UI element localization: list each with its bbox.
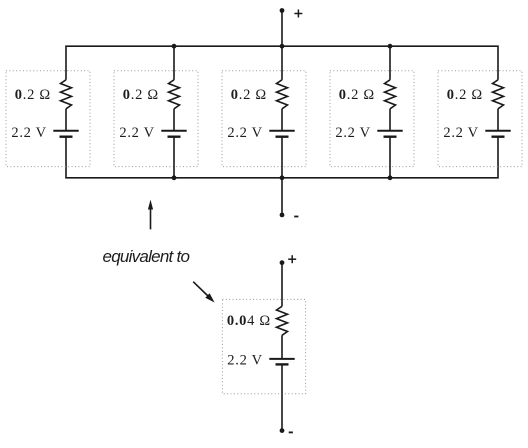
arrow up (from equivalent to) bbox=[148, 200, 153, 230]
wire bbox=[281, 46, 283, 80]
resistor 0.2 ohm (cell 4) bbox=[385, 80, 396, 109]
wire bbox=[389, 137, 391, 178]
resistor 0.2 ohm (cell 5) bbox=[493, 80, 504, 109]
battery cell box 1 bbox=[6, 71, 90, 167]
wire bbox=[281, 364, 283, 430]
battery 2.2 V (cell 1) bbox=[53, 131, 78, 137]
svg-text:equivalent to: equivalent to bbox=[103, 247, 190, 266]
svg-text:0.2 Ω: 0.2 Ω bbox=[231, 87, 267, 103]
wire bbox=[173, 46, 175, 80]
resistor 0.2 ohm (cell 1) bbox=[61, 80, 72, 109]
node + (equivalent top dot) bbox=[280, 260, 285, 265]
junction (bottom, cell 2) bbox=[172, 175, 177, 180]
svg-text:2.2 V: 2.2 V bbox=[227, 352, 262, 368]
battery cell box 5 bbox=[438, 71, 522, 167]
svg-text:0.2 Ω: 0.2 Ω bbox=[15, 87, 51, 103]
junction (top, cell 3) bbox=[280, 44, 285, 49]
node - terminal wire (bottom) bbox=[281, 178, 283, 215]
svg-text:2.2 V: 2.2 V bbox=[119, 125, 154, 141]
node - (bottom terminal dot) bbox=[280, 213, 285, 218]
svg-text:0.2 Ω: 0.2 Ω bbox=[123, 87, 159, 103]
battery 2.2 V (cell 2) bbox=[161, 131, 186, 137]
battery 2.2 V (cell 4) bbox=[377, 131, 402, 137]
resistor 0.2 ohm (cell 3) bbox=[277, 80, 288, 109]
wire bbox=[65, 109, 67, 131]
CELL 2 bbox=[114, 44, 198, 180]
svg-text:0.2 Ω: 0.2 Ω bbox=[339, 87, 375, 103]
wire bbox=[281, 335, 283, 359]
node - (equivalent bottom dot) bbox=[280, 428, 285, 433]
- symbol (equivalent bottom) bbox=[289, 431, 293, 433]
wire bbox=[281, 109, 283, 131]
battery 2.2 V (cell 5) bbox=[485, 131, 510, 137]
junction (bottom, cell 3) bbox=[280, 175, 285, 180]
wire bbox=[173, 137, 175, 178]
battery cell box 3 bbox=[222, 71, 306, 167]
EQUIVALENT CELL bbox=[222, 255, 305, 433]
wire bbox=[173, 109, 175, 131]
+ symbol (equivalent top) bbox=[288, 255, 296, 263]
wire bbox=[281, 137, 283, 178]
svg-text:0.2 Ω: 0.2 Ω bbox=[447, 87, 483, 103]
CELL 5 bbox=[438, 71, 522, 167]
node + terminal wire (top) bbox=[281, 11, 283, 47]
arrow diagonal (to equivalent cell) bbox=[193, 282, 214, 303]
svg-text:2.2 V: 2.2 V bbox=[443, 125, 478, 141]
svg-text:2.2 V: 2.2 V bbox=[11, 125, 46, 141]
battery cell box (equivalent) bbox=[222, 299, 305, 393]
resistor 0.04 ohm (equivalent) bbox=[277, 306, 288, 335]
svg-text:2.2 V: 2.2 V bbox=[335, 125, 370, 141]
node + (top terminal dot) bbox=[280, 8, 285, 13]
CELL 4 bbox=[330, 44, 414, 180]
wire bbox=[497, 109, 499, 131]
wire bottom bus bbox=[66, 137, 498, 178]
- symbol (bottom terminal) bbox=[294, 216, 298, 218]
junction (top, cell 4) bbox=[388, 44, 393, 49]
wire bbox=[281, 263, 283, 307]
svg-text:0.04 Ω: 0.04 Ω bbox=[227, 313, 271, 329]
wire top bus bbox=[66, 46, 498, 80]
CELL 3 bbox=[222, 44, 306, 180]
junction (bottom, cell 4) bbox=[388, 175, 393, 180]
+ symbol (top terminal) bbox=[294, 10, 302, 18]
battery cell box 2 bbox=[114, 71, 198, 167]
svg-text:2.2 V: 2.2 V bbox=[227, 125, 262, 141]
battery 2.2 V (equivalent) bbox=[269, 359, 294, 365]
battery 2.2 V (cell 3) bbox=[269, 131, 294, 137]
battery cell box 4 bbox=[330, 71, 414, 167]
junction (top, cell 2) bbox=[172, 44, 177, 49]
wire bbox=[389, 109, 391, 131]
resistor 0.2 ohm (cell 2) bbox=[169, 80, 180, 109]
CELL 1 bbox=[6, 71, 90, 167]
wire bbox=[389, 46, 391, 80]
